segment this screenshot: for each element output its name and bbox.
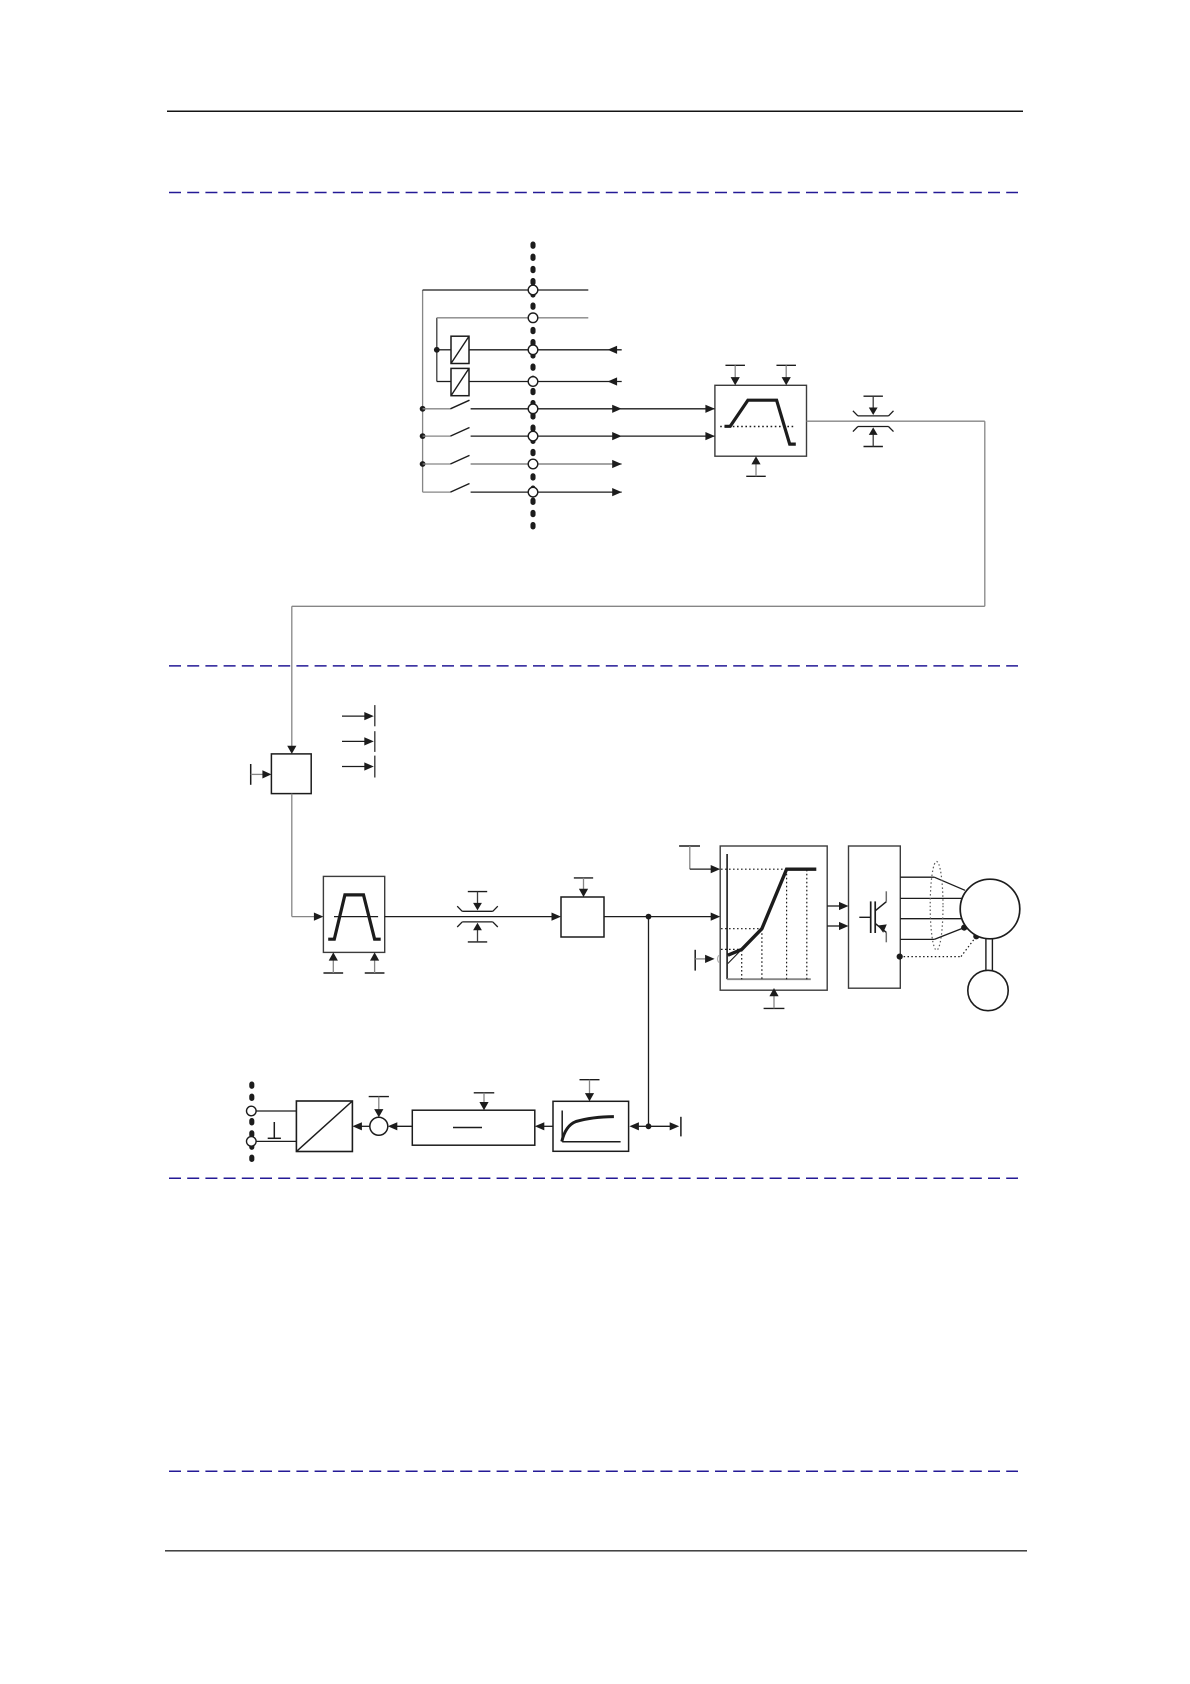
terminal row 6 (528, 431, 538, 441)
wire digital output row 4 (469, 381, 622, 383)
wire to output driver 1 (437, 349, 451, 351)
motor phase wire U (900, 877, 965, 890)
parameter input: slip compensation (574, 878, 593, 897)
switch contact row 7 (423, 455, 470, 464)
parameter input: ramp down time (776, 365, 796, 385)
switch contact row 8 (423, 484, 470, 493)
arrow row 8 (612, 488, 622, 496)
display value output arrow 1 (342, 712, 374, 720)
wire digital input row 2 (437, 317, 589, 319)
inverter power stage block (849, 846, 901, 988)
wire Ixt box to filter (535, 1122, 553, 1130)
junction node row 7 (420, 461, 426, 467)
section divider dashed line 2 (169, 665, 1018, 667)
wire to actual frequency terminator (649, 1117, 681, 1137)
motor shaft (986, 939, 993, 971)
wire down from limiter (984, 421, 986, 606)
Ixt / saturation characteristic box (553, 1101, 629, 1151)
parameter input: ramp time 2b (365, 952, 385, 973)
output wire from ramp generator (807, 420, 985, 422)
wire across to section 2 (292, 605, 985, 607)
section divider dashed line 4 (169, 1470, 1018, 1472)
junction node row 3 (434, 347, 440, 353)
arrow into ramp generator row 5 (705, 405, 715, 413)
wire digital input row 1 (423, 289, 589, 291)
analog input wire + (256, 1110, 296, 1112)
parameter input: filter time (Ixt box) (580, 1080, 600, 1102)
parameter input: voltage boost (lower left) (695, 950, 714, 971)
V/f curve (728, 869, 816, 955)
parameter input: max voltage (top left) (679, 846, 720, 873)
display value output arrow 3 (342, 762, 374, 770)
junction node inverter PE (897, 954, 903, 960)
junction node feedback row (646, 1123, 652, 1129)
slip compensation box (561, 897, 604, 937)
wire V/f to inverter (upper) (827, 902, 848, 910)
setpoint selector box (271, 754, 311, 794)
24V supply bus vertical wire (422, 290, 424, 492)
motor phase wire V (900, 897, 962, 899)
V/f boost line (728, 949, 742, 963)
switch contact row 5 (423, 400, 470, 409)
parameter input: ramp shape (bottom) (746, 456, 766, 476)
parameter input: ramp up time (725, 365, 745, 385)
arrow into slip compensation box (552, 913, 562, 921)
wire summing point to A/D converter (352, 1122, 369, 1130)
motor phase wire W (900, 918, 961, 920)
ramp generator block (setpoint ramp) (715, 385, 807, 456)
V/f characteristic block (720, 846, 827, 990)
terminal row 4 (528, 377, 538, 387)
parameter input: smoothing time (474, 1093, 495, 1110)
page header rule (167, 110, 1023, 112)
digital input terminal strip (dotted) (530, 244, 535, 534)
cable screen ellipse (930, 862, 943, 951)
wire digital input row 5 (471, 408, 715, 410)
analog input wire - (256, 1140, 296, 1142)
smoothing filter box (412, 1110, 535, 1145)
parameter input: ramp time 2a (323, 952, 343, 973)
arrow row 5 (612, 405, 622, 413)
digital output driver 2 (box with diagonal) (451, 368, 469, 395)
junction node on motor terminal (961, 925, 967, 931)
wire from selector down (291, 794, 293, 917)
wire digital output row 3 (469, 349, 622, 351)
wire to output driver 2 (437, 381, 451, 383)
IGBT symbol (859, 891, 887, 942)
arrow (signal out) row 3 (608, 346, 618, 354)
motor PE wire (900, 928, 964, 940)
wire junction down to feedback row (648, 917, 650, 1127)
analog input terminal strip (dotted) (249, 1084, 254, 1165)
arrow into V/f characteristic (711, 913, 721, 921)
V/f dotted guide lines (721, 869, 807, 979)
section divider dashed line 3 (169, 1177, 1018, 1179)
display bus dashed bar (374, 705, 376, 777)
terminal row 1 (528, 285, 538, 295)
screen earth dotted wire (900, 936, 977, 956)
parameter source input (left) (251, 764, 272, 785)
A/D converter box (296, 1101, 352, 1152)
tacho / encoder circle (968, 970, 1008, 1010)
arrow into setpoint selector (287, 746, 296, 754)
wire ramp2 to frequency limiter (385, 916, 553, 918)
terminal row 8 (528, 487, 538, 497)
wire digital input row 6 (471, 435, 715, 437)
junction node screen bond (973, 933, 979, 939)
switch contact row 6 (423, 428, 470, 437)
wire into ramp generator 2 (292, 916, 316, 918)
summing point circle (370, 1117, 388, 1135)
parameter input: offset (summing point) (369, 1097, 389, 1118)
page footer rule (165, 1550, 1027, 1552)
junction node (frequency setpoint) (646, 914, 652, 920)
wire junction to Ixt box (629, 1122, 648, 1130)
wire digital input row 7 (471, 463, 622, 465)
junction node row 5 (420, 406, 426, 412)
wire V/f to inverter (lower) (827, 922, 848, 930)
terminal row 2 (528, 313, 538, 323)
small brace artifact at boost input (718, 955, 719, 962)
motor (circle M) (960, 879, 1020, 939)
digital output driver 1 (box with diagonal) (451, 336, 469, 363)
arrow row 6 (612, 432, 622, 440)
arrow into ramp generator 2 (314, 913, 324, 921)
supply bus 2 vertical wire (436, 318, 438, 382)
terminal row 5 (528, 404, 538, 414)
analog terminal - (247, 1137, 257, 1147)
arrow row 7 (612, 460, 622, 468)
analog terminal + (247, 1106, 257, 1116)
arrow (signal out) row 4 (608, 377, 618, 385)
wire down into setpoint selector (291, 606, 293, 747)
V/f axes (727, 854, 811, 979)
arrow into ramp generator row 6 (705, 432, 715, 440)
setpoint min/max limiter (853, 396, 894, 446)
terminal row 7 (528, 459, 538, 469)
ramp generator block 2 (323, 876, 384, 952)
junction node row 6 (420, 433, 426, 439)
frequency min/max limiter (457, 892, 498, 942)
display value output arrow 2 (342, 737, 374, 745)
parameter input: rated frequency (bottom) (764, 988, 785, 1008)
terminal row 3 (528, 345, 538, 355)
ground symbol (268, 1122, 281, 1138)
wire filter to summing point (388, 1122, 413, 1130)
wire slip comp to junction (604, 916, 712, 918)
section divider dashed line 1 (169, 192, 1018, 194)
wire digital input row 8 (471, 491, 622, 493)
